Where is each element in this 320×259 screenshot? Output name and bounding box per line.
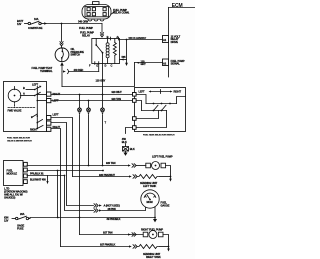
fuse F1 10A COMP/FUSE: [25, 17, 45, 30]
node on 565 wire: [126, 39, 128, 41]
ECM pin A1: [163, 34, 181, 44]
wire module t3: [27, 175, 65, 177]
relay K1 fuel pump relay: [80, 31, 127, 68]
svg-text:28 PNK: 28 PNK: [108, 207, 117, 211]
wire 565 DK GRN/WHT to ECM A1: [120, 39, 163, 41]
svg-text:RIGHT TANK: RIGHT TANK: [146, 255, 161, 259]
drop from row A with splice: [78, 95, 82, 235]
row A wire 920 WHT to selector switch: [51, 94, 133, 96]
fuse F2 20A GAGE FUSE: [12, 212, 30, 231]
svg-text:340 ORN: 340 ORN: [78, 20, 88, 24]
svg-text:BLK: BLK: [130, 147, 135, 151]
lower blades: [32, 114, 38, 118]
wire relay pin D down 120 GRY pump feed: [102, 64, 104, 108]
svg-text:120 GRY: 120 GRY: [96, 79, 106, 83]
svg-text:MOM: MOM: [147, 200, 153, 204]
wire sender row left tank: [73, 176, 130, 178]
svg-text:GRY: GRY: [141, 62, 147, 66]
relay contact: [95, 39, 97, 45]
svg-text:20A: 20A: [20, 212, 25, 216]
svg-text:927 TAN: 927 TAN: [103, 231, 113, 235]
pin marks top: [109, 37, 111, 40]
inline connector chevrons: [60, 42, 63, 46]
svg-text:10A: 10A: [34, 17, 39, 21]
svg-text:927 PNK/BLK: 927 PNK/BLK: [100, 243, 116, 247]
svg-text:SIGNAL: SIGNAL: [171, 62, 181, 66]
valve internal contacts: [8, 83, 47, 132]
svg-text:FUEL PUMP: FUEL PUMP: [79, 26, 93, 30]
drop from row B with splice: [87, 101, 91, 166]
svg-text:LEFT: LEFT: [53, 112, 60, 116]
ECM U1: [169, 3, 196, 77]
valve terminal squares: [47, 92, 61, 131]
inline connector chevrons into relay: [100, 33, 103, 37]
svg-text:FUSE: FUSE: [17, 227, 24, 231]
fuel module box: [4, 161, 28, 200]
svg-text:BLK/WHT 450: BLK/WHT 450: [30, 177, 46, 181]
label IGN 12V: [4, 216, 9, 223]
label 340 ORN: [78, 20, 93, 30]
blades: [35, 87, 41, 90]
wire 39 PNK/BLK ign feed: [30, 217, 155, 219]
svg-text:SWITCH: SWITCH: [71, 53, 81, 57]
svg-text:TERMINAL: TERMINAL: [40, 69, 53, 73]
valve motor M: [8, 87, 21, 102]
stub to 565 drop: [120, 59, 127, 61]
svg-text:920 WHT: 920 WHT: [112, 90, 123, 94]
svg-text:920 TAN: 920 TAN: [112, 97, 122, 101]
relay coil: [106, 43, 109, 46]
svg-text:VALVE & METER SWITCH: VALVE & METER SWITCH: [7, 140, 32, 143]
row B wire 920 TAN to selector switch: [51, 100, 133, 102]
svg-text:RIGHT: RIGHT: [53, 92, 61, 96]
fuel tank selector valve box: [4, 82, 47, 143]
pin marks bottom: [94, 62, 96, 65]
svg-text:PPL/BLK 81: PPL/BLK 81: [30, 172, 44, 176]
label fuel pump test terminal: [32, 66, 53, 73]
wire not used row: [67, 205, 94, 207]
wire oil switch node down and across to ECM A2 tap: [61, 72, 63, 87]
inline connector arrow after fuse: [44, 22, 47, 24]
svg-text:GAUGES): GAUGES): [4, 196, 16, 200]
switch network: [136, 95, 146, 104]
sending unit right tank resistor: [138, 245, 170, 259]
fuel tank selector switch box: [135, 88, 186, 137]
svg-text:LEFT TANK: LEFT TANK: [143, 184, 156, 188]
switch terminals left: [133, 93, 137, 130]
wire drop from 565 node: [126, 40, 128, 63]
svg-text:GAUGE: GAUGE: [161, 203, 170, 207]
wire drop to relay: [101, 24, 103, 33]
node junction on feed wire: [61, 23, 63, 25]
dashed actuator link: [8, 107, 35, 109]
svg-text:39 PNK/BLK: 39 PNK/BLK: [107, 217, 121, 221]
contact arrow below switch: [60, 62, 64, 66]
splice connector on pump feed: [101, 108, 105, 112]
wire drop to oil pressure switch: [61, 24, 63, 42]
battery label BATT 12V: [17, 19, 24, 26]
connector J1 fuel pump relay conn pictorial: [82, 2, 130, 21]
svg-text:565 DK GRN/WHT: 565 DK GRN/WHT: [129, 38, 147, 40]
wire 440 RED: [69, 71, 99, 73]
svg-text:440 RED: 440 RED: [74, 68, 84, 72]
fuel gauge G1: [141, 190, 170, 218]
wire sq5 down to bottom loop: [51, 129, 61, 247]
ground tap 450 BLK: [122, 128, 135, 156]
right fuel pump P2: [141, 228, 169, 247]
svg-text:920 TAN: 920 TAN: [106, 161, 116, 165]
left fuel pump P1: [146, 155, 173, 177]
wire loop to 927 TAN row: [80, 234, 144, 236]
svg-text:RELAY CONN.: RELAY CONN.: [113, 11, 130, 15]
svg-text:ECM: ECM: [172, 3, 183, 9]
wire loop to 927 PNK/BLK row: [61, 246, 130, 248]
svg-text:RIGHT: RIGHT: [174, 89, 182, 93]
svg-text:12V: 12V: [4, 219, 9, 223]
wire module t1 pump feed row: [27, 165, 128, 167]
svg-text:A: A: [23, 92, 25, 96]
wire sq3 down to sender row: [51, 118, 73, 177]
svg-text:MODULE: MODULE: [7, 172, 18, 176]
wire 920 TAN row to left pump: [102, 165, 104, 167]
sending unit left tank resistor: [138, 175, 172, 189]
svg-text:C: C: [111, 64, 113, 68]
svg-text:920 PNK/WHT: 920 PNK/WHT: [99, 173, 115, 177]
svg-text:D: D: [105, 64, 107, 68]
connector half at test terminal: [63, 70, 66, 72]
wire relay pin to test terminal node: [98, 64, 100, 71]
pole line: [36, 86, 38, 128]
svg-text:FUEL TANK SELECTOR SWITCH: FUEL TANK SELECTOR SWITCH: [143, 133, 175, 136]
svg-text:RELAY: RELAY: [82, 34, 90, 38]
svg-text:12V: 12V: [17, 22, 22, 26]
wire into ECM A2: [135, 62, 163, 64]
wire 28 PNK row to gauge: [65, 176, 94, 211]
svg-text:BLK: BLK: [122, 140, 127, 144]
svg-text:COMP/FUSE: COMP/FUSE: [28, 26, 43, 30]
ECM pin A2: [163, 59, 185, 66]
svg-text:DRIVE: DRIVE: [171, 40, 179, 44]
svg-text:B: B: [23, 86, 25, 90]
svg-text:LEFT: LEFT: [32, 83, 39, 87]
wire sq4 down to not-used row: [51, 123, 67, 206]
svg-text:FUEL TANK SELECTOR: FUEL TANK SELECTOR: [7, 137, 30, 140]
svg-text:A: A: [116, 35, 118, 39]
svg-text:LEFT: LEFT: [139, 89, 146, 93]
relay resistor: [113, 43, 116, 56]
wire module t2 PPL/BLK: [27, 170, 103, 172]
svg-text:RIGHT: RIGHT: [30, 128, 38, 132]
wire main feed: [47, 23, 103, 25]
svg-text:LEFT FUEL PUMP: LEFT FUEL PUMP: [152, 155, 173, 159]
svg-text:565: 565: [122, 55, 127, 59]
oil pressure switch S1: [55, 46, 84, 62]
svg-text:FWD VALVE: FWD VALVE: [8, 109, 22, 113]
